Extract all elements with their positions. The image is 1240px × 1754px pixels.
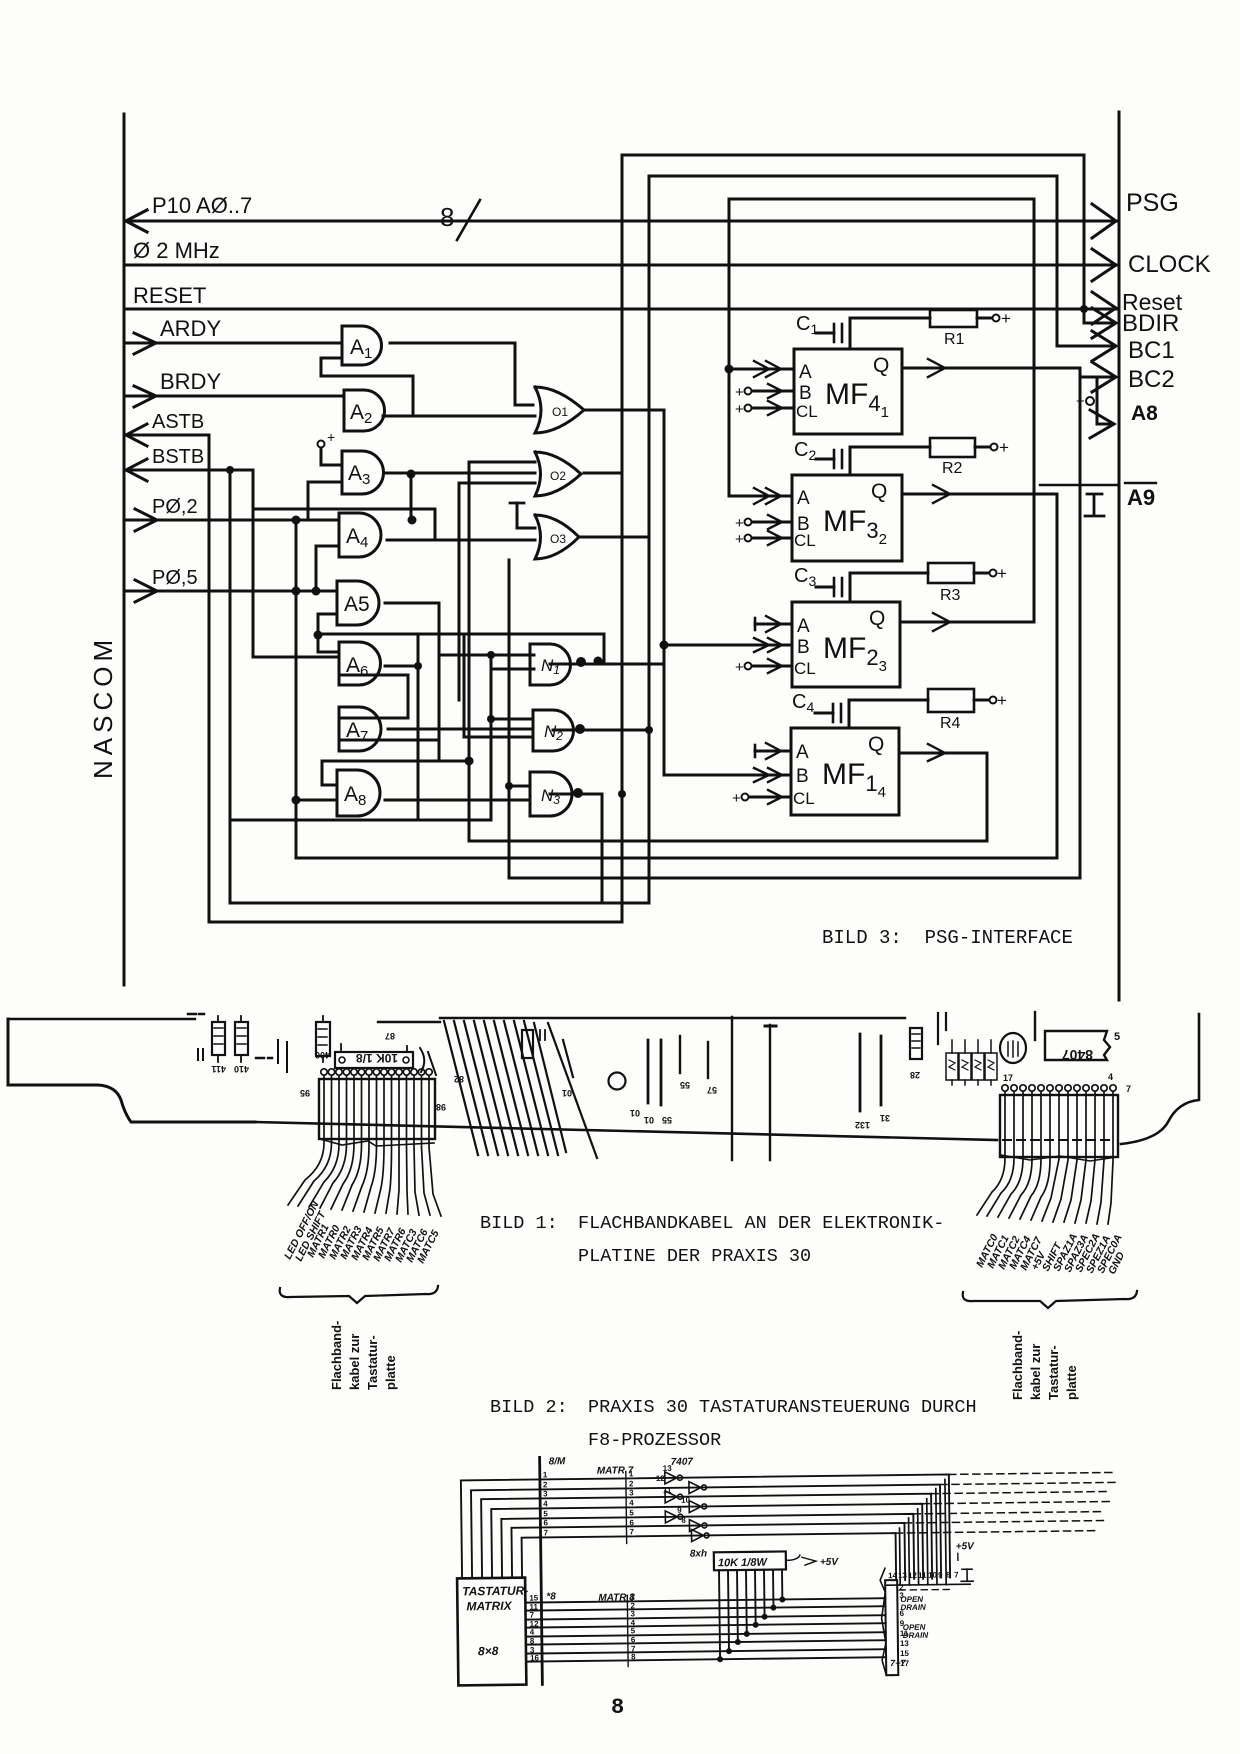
svg-text:BC2: BC2: [1128, 366, 1175, 393]
svg-text:kabel zur: kabel zur: [1028, 1344, 1043, 1400]
svg-text:O1: O1: [552, 405, 568, 419]
svg-text:+: +: [735, 401, 744, 418]
svg-text:R2: R2: [942, 460, 963, 477]
svg-text:8: 8: [440, 202, 454, 232]
svg-text:9: 9: [677, 1506, 682, 1515]
svg-text:01: 01: [630, 1108, 640, 1118]
svg-text:8xh: 8xh: [690, 1548, 707, 1559]
svg-text:Tastatur-: Tastatur-: [365, 1335, 380, 1390]
svg-text:87: 87: [385, 1031, 395, 1041]
svg-text:P10 AØ..7: P10 AØ..7: [152, 193, 252, 218]
svg-text:2: 2: [629, 1479, 634, 1488]
svg-text:11: 11: [663, 1486, 672, 1495]
svg-text:FLACHBANDKABEL AN DER ELEKTRON: FLACHBANDKABEL AN DER ELEKTRONIK-: [578, 1213, 944, 1234]
svg-text:A8: A8: [1131, 402, 1158, 425]
svg-text:411: 411: [211, 1064, 226, 1074]
svg-text:5: 5: [543, 1509, 548, 1518]
svg-text:410: 410: [234, 1064, 249, 1074]
svg-text:31: 31: [880, 1113, 890, 1123]
svg-text:*8: *8: [546, 1591, 556, 1602]
svg-text:B: B: [799, 383, 812, 404]
svg-text:4: 4: [629, 1498, 634, 1507]
svg-text:17: 17: [1003, 1073, 1013, 1083]
svg-text:RESET: RESET: [133, 283, 206, 308]
svg-text:01: 01: [644, 1115, 654, 1125]
svg-text:95: 95: [300, 1088, 310, 1098]
svg-text:+: +: [999, 438, 1009, 457]
svg-text:8×8: 8×8: [478, 1644, 499, 1658]
svg-text:5: 5: [631, 1626, 636, 1635]
svg-text:01: 01: [562, 1088, 572, 1098]
svg-text:5: 5: [1114, 1031, 1120, 1043]
svg-text:8/M: 8/M: [549, 1456, 566, 1467]
svg-text:15: 15: [529, 1593, 539, 1602]
svg-text:5: 5: [629, 1508, 634, 1517]
svg-text:13: 13: [898, 1571, 908, 1580]
svg-text:Tastatur-: Tastatur-: [1046, 1345, 1061, 1400]
svg-text:10K 1/8: 10K 1/8: [356, 1051, 398, 1065]
svg-text:6: 6: [631, 1635, 636, 1644]
svg-text:9: 9: [938, 1571, 943, 1580]
svg-text:Q: Q: [869, 607, 885, 630]
svg-text:ASTB: ASTB: [152, 411, 204, 433]
svg-text:12: 12: [656, 1474, 666, 1483]
svg-text:BILD 1:: BILD 1:: [480, 1213, 558, 1234]
svg-text:R4: R4: [940, 715, 961, 732]
svg-text:+: +: [327, 429, 335, 445]
svg-text:12: 12: [908, 1571, 918, 1580]
svg-text:NASCOM: NASCOM: [88, 635, 118, 779]
svg-text:BSTB: BSTB: [152, 446, 204, 468]
svg-text:55: 55: [680, 1080, 690, 1090]
svg-text:CLOCK: CLOCK: [1128, 251, 1211, 278]
svg-text:8: 8: [530, 1637, 535, 1646]
svg-text:platte: platte: [383, 1355, 398, 1390]
svg-text:4: 4: [543, 1499, 548, 1508]
svg-text:+: +: [997, 564, 1007, 583]
svg-text:8: 8: [611, 1695, 624, 1720]
svg-text:17: 17: [900, 1659, 910, 1668]
svg-text:TASTATUR-: TASTATUR-: [462, 1584, 528, 1599]
svg-text:10K 1/8W: 10K 1/8W: [718, 1557, 769, 1570]
svg-text:55: 55: [662, 1115, 672, 1125]
svg-text:8: 8: [681, 1516, 686, 1525]
svg-text:11: 11: [918, 1571, 927, 1580]
svg-text:+: +: [1001, 309, 1011, 328]
svg-text:+: +: [735, 384, 744, 401]
svg-text:O3: O3: [550, 532, 566, 546]
svg-text:PRAXIS 30 TASTATURANSTEUERUNG: PRAXIS 30 TASTATURANSTEUERUNG DURCH: [588, 1397, 977, 1418]
svg-text:13: 13: [900, 1639, 910, 1648]
svg-text:6: 6: [543, 1518, 548, 1527]
svg-text:B: B: [797, 637, 810, 658]
svg-text:+: +: [997, 691, 1007, 710]
svg-text:PSG: PSG: [1126, 189, 1179, 217]
svg-text:1: 1: [629, 1469, 634, 1478]
svg-text:+: +: [732, 790, 741, 807]
svg-text:13: 13: [663, 1464, 673, 1473]
svg-text:Q: Q: [871, 480, 887, 503]
svg-text:A: A: [799, 362, 812, 383]
svg-text:6: 6: [629, 1518, 634, 1527]
svg-text:BILD 2:: BILD 2:: [490, 1397, 568, 1418]
svg-text:16: 16: [530, 1653, 540, 1662]
svg-text:CL: CL: [793, 789, 815, 808]
svg-text:A: A: [797, 488, 810, 509]
svg-text:9: 9: [900, 1619, 905, 1628]
svg-text:A: A: [797, 616, 810, 637]
svg-text:1: 1: [630, 1592, 635, 1601]
svg-text:Q: Q: [868, 733, 884, 756]
svg-text:R1: R1: [944, 331, 965, 348]
svg-text:8407: 8407: [1062, 1047, 1093, 1063]
svg-text:CL: CL: [794, 531, 816, 550]
svg-text:BDIR: BDIR: [1122, 310, 1179, 337]
svg-text:CL: CL: [796, 402, 818, 421]
svg-text:+: +: [1076, 393, 1085, 410]
svg-text:O2: O2: [550, 469, 566, 483]
svg-text:platte: platte: [1064, 1365, 1079, 1400]
svg-text:8: 8: [631, 1652, 636, 1661]
svg-text:F8-PROZESSOR: F8-PROZESSOR: [588, 1430, 721, 1451]
svg-text:+: +: [735, 531, 744, 548]
svg-text:4: 4: [530, 1628, 535, 1637]
svg-text:Q: Q: [873, 354, 889, 377]
svg-text:PØ,5: PØ,5: [152, 567, 198, 589]
svg-text:2: 2: [543, 1480, 548, 1489]
svg-text:7407: 7407: [671, 1457, 694, 1468]
svg-text:CL: CL: [794, 659, 816, 678]
svg-text:3: 3: [630, 1609, 635, 1618]
svg-text:3: 3: [543, 1489, 548, 1498]
svg-text:BRDY: BRDY: [160, 369, 221, 394]
svg-text:7: 7: [543, 1528, 548, 1537]
svg-text:8: 8: [946, 1570, 951, 1579]
svg-text:400: 400: [315, 1050, 330, 1060]
svg-text:7: 7: [954, 1570, 959, 1579]
svg-text:+5V: +5V: [956, 1541, 976, 1552]
svg-text:11: 11: [900, 1629, 909, 1638]
svg-text:MATRIX: MATRIX: [466, 1599, 512, 1614]
svg-text:PLATINE DER PRAXIS 30: PLATINE DER PRAXIS 30: [578, 1246, 811, 1267]
svg-text:28: 28: [910, 1070, 920, 1080]
svg-text:10: 10: [681, 1496, 691, 1505]
svg-text:3: 3: [629, 1488, 634, 1497]
svg-text:1: 1: [543, 1470, 548, 1479]
svg-text:10: 10: [928, 1571, 938, 1580]
svg-text:PØ,2: PØ,2: [152, 496, 198, 518]
svg-text:Ø 2 MHz: Ø 2 MHz: [133, 238, 220, 263]
svg-text:+: +: [735, 659, 744, 676]
svg-text:B: B: [796, 766, 809, 787]
svg-text:A5: A5: [344, 593, 370, 616]
svg-text:Flachband-: Flachband-: [329, 1321, 344, 1390]
svg-text:A9: A9: [1127, 485, 1155, 510]
svg-text:+: +: [735, 515, 744, 532]
svg-text:R3: R3: [940, 587, 961, 604]
svg-text:7: 7: [1126, 1084, 1131, 1094]
svg-text:kabel zur: kabel zur: [347, 1334, 362, 1390]
svg-text:3: 3: [899, 1591, 904, 1600]
svg-text:A: A: [796, 742, 809, 763]
svg-text:BC1: BC1: [1128, 337, 1175, 364]
svg-text:82: 82: [454, 1074, 464, 1084]
svg-text:DRAIN: DRAIN: [900, 1603, 926, 1612]
svg-text:98: 98: [436, 1102, 446, 1112]
svg-text:15: 15: [900, 1649, 910, 1658]
svg-text:+5V: +5V: [820, 1557, 840, 1568]
svg-text:7: 7: [529, 1611, 534, 1620]
svg-text:4: 4: [1108, 1072, 1113, 1082]
svg-text:ARDY: ARDY: [160, 316, 221, 341]
svg-text:BILD 3: PSG-INTERFACE: BILD 3: PSG-INTERFACE: [822, 927, 1073, 949]
svg-text:132: 132: [855, 1120, 870, 1130]
svg-text:Flachband-: Flachband-: [1010, 1331, 1025, 1400]
svg-text:7: 7: [629, 1527, 634, 1536]
svg-text:14: 14: [888, 1571, 898, 1580]
svg-text:6: 6: [899, 1609, 904, 1618]
svg-text:57: 57: [707, 1085, 717, 1095]
